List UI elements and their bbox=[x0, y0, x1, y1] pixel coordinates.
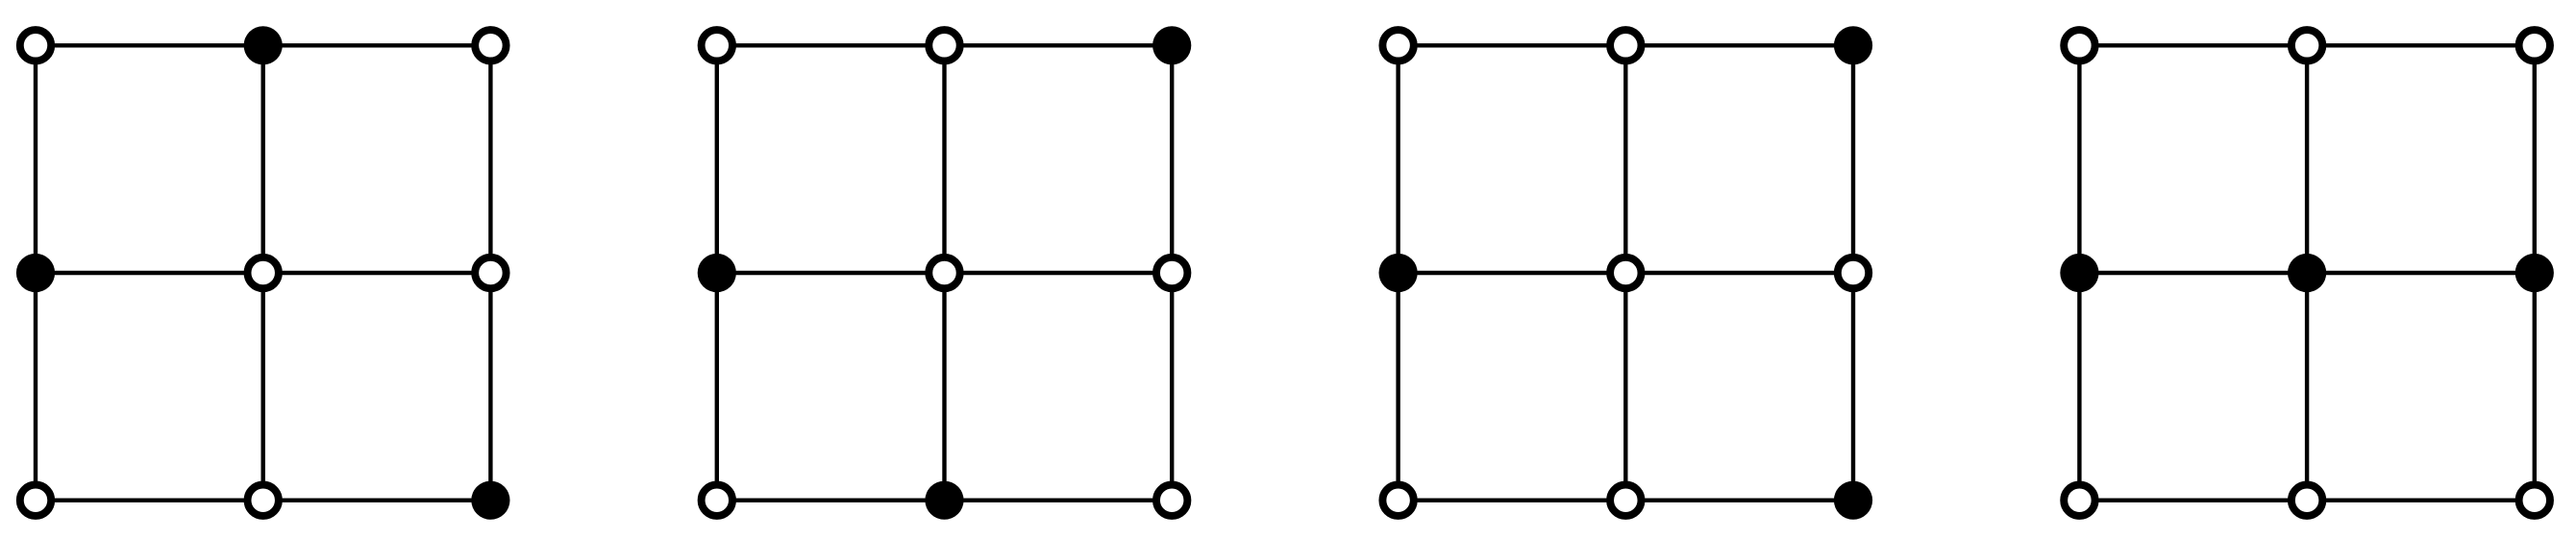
wire grid2 col2: node 12 to node 22 bbox=[942, 45, 946, 273]
node grid4-31 (open vertex) bbox=[2064, 485, 2094, 516]
wire grid2 col1: node 11 to node 21 bbox=[715, 45, 719, 273]
wire grid3 row1: node 12 to node 13 bbox=[1625, 43, 1853, 47]
wire grid4 row3: node 32 to node 33 bbox=[2307, 499, 2535, 502]
node grid2-11 (open vertex) bbox=[702, 30, 732, 61]
node grid3-13 (filled vertex) bbox=[1834, 26, 1872, 64]
wire grid3 row3: node 32 to node 33 bbox=[1625, 499, 1853, 502]
wire grid1 col1: node 21 to node 31 bbox=[34, 273, 37, 501]
wire grid3 col1: node 21 to node 31 bbox=[1396, 273, 1399, 501]
node grid2-21 (filled vertex) bbox=[698, 254, 736, 292]
wire grid4 col2: node 12 to node 22 bbox=[2305, 45, 2309, 273]
wire grid4 row2: node 21 to node 22 bbox=[2079, 271, 2307, 275]
node grid2-32 (filled vertex) bbox=[925, 481, 963, 520]
node grid4-33 (open vertex) bbox=[2519, 485, 2550, 516]
wire grid4 row3: node 31 to node 32 bbox=[2079, 499, 2307, 502]
wire grid2 row1: node 11 to node 12 bbox=[717, 43, 945, 47]
node grid1-23 (open vertex) bbox=[475, 257, 506, 288]
wire grid4 col1: node 21 to node 31 bbox=[2077, 273, 2081, 501]
wire grid1 col2: node 12 to node 22 bbox=[261, 45, 265, 273]
node grid4-12 (open vertex) bbox=[2291, 30, 2322, 61]
node grid3-11 (open vertex) bbox=[1382, 30, 1413, 61]
wire grid4 row2: node 22 to node 23 bbox=[2307, 271, 2535, 275]
wire grid4 row1: node 12 to node 13 bbox=[2307, 43, 2535, 47]
node grid4-22 (filled vertex) bbox=[2288, 254, 2326, 292]
wire grid2 row3: node 32 to node 33 bbox=[945, 499, 1173, 502]
node grid1-13 (open vertex) bbox=[475, 30, 506, 61]
node grid3-22 (open vertex) bbox=[1610, 257, 1641, 288]
wire grid3 col1: node 11 to node 21 bbox=[1396, 45, 1399, 273]
node grid2-22 (open vertex) bbox=[929, 257, 959, 288]
wire grid2 col3: node 13 to node 23 bbox=[1170, 45, 1174, 273]
node grid2-33 (open vertex) bbox=[1156, 485, 1187, 516]
node grid4-21 (filled vertex) bbox=[2060, 254, 2098, 292]
wire grid1 row3: node 32 to node 33 bbox=[263, 499, 491, 502]
node grid3-33 (filled vertex) bbox=[1834, 481, 1872, 520]
node grid4-23 (filled vertex) bbox=[2515, 254, 2554, 292]
wire grid2 col3: node 23 to node 33 bbox=[1170, 273, 1174, 501]
wire grid2 row1: node 12 to node 13 bbox=[945, 43, 1173, 47]
wire grid4 col2: node 22 to node 32 bbox=[2305, 273, 2309, 501]
node grid1-33 (filled vertex) bbox=[471, 481, 509, 520]
wire grid2 row3: node 31 to node 32 bbox=[717, 499, 945, 502]
node grid3-21 (filled vertex) bbox=[1379, 254, 1418, 292]
node grid1-32 (open vertex) bbox=[248, 485, 279, 516]
node grid1-12 (filled vertex) bbox=[244, 26, 283, 64]
wire grid4 col3: node 23 to node 33 bbox=[2533, 273, 2537, 501]
wire grid3 col2: node 22 to node 32 bbox=[1623, 273, 1627, 501]
node grid2-13 (filled vertex) bbox=[1152, 26, 1191, 64]
wire grid1 col3: node 13 to node 23 bbox=[488, 45, 492, 273]
wire grid3 row3: node 31 to node 32 bbox=[1399, 499, 1626, 502]
wire grid4 col3: node 13 to node 23 bbox=[2533, 45, 2537, 273]
wire grid1 col3: node 23 to node 33 bbox=[488, 273, 492, 501]
node grid1-11 (open vertex) bbox=[20, 30, 51, 61]
node grid1-22 (open vertex) bbox=[248, 257, 279, 288]
wire grid1 row2: node 22 to node 23 bbox=[263, 271, 491, 275]
wire grid2 col1: node 21 to node 31 bbox=[715, 273, 719, 501]
node grid1-31 (open vertex) bbox=[20, 485, 51, 516]
node grid2-12 (open vertex) bbox=[929, 30, 959, 61]
wire grid1 col1: node 11 to node 21 bbox=[34, 45, 37, 273]
wire grid4 col1: node 11 to node 21 bbox=[2077, 45, 2081, 273]
node grid3-32 (open vertex) bbox=[1610, 485, 1641, 516]
wire grid2 row2: node 21 to node 22 bbox=[717, 271, 945, 275]
wire grid2 col2: node 22 to node 32 bbox=[942, 273, 946, 501]
node grid3-23 (open vertex) bbox=[1838, 257, 1869, 288]
node grid2-31 (open vertex) bbox=[702, 485, 732, 516]
wire grid3 col3: node 23 to node 33 bbox=[1851, 273, 1855, 501]
node grid3-12 (open vertex) bbox=[1610, 30, 1641, 61]
wire grid1 row3: node 31 to node 32 bbox=[36, 499, 263, 502]
wire grid3 row2: node 22 to node 23 bbox=[1625, 271, 1853, 275]
node grid2-23 (open vertex) bbox=[1156, 257, 1187, 288]
node grid3-31 (open vertex) bbox=[1382, 485, 1413, 516]
node grid1-21 (filled vertex) bbox=[16, 254, 55, 292]
wire grid3 row1: node 11 to node 12 bbox=[1399, 43, 1626, 47]
wire grid1 row2: node 21 to node 22 bbox=[36, 271, 263, 275]
wire grid4 row1: node 11 to node 12 bbox=[2079, 43, 2307, 47]
wire grid1 row1: node 12 to node 13 bbox=[263, 43, 491, 47]
node grid4-11 (open vertex) bbox=[2064, 30, 2094, 61]
wire grid2 row2: node 22 to node 23 bbox=[945, 271, 1173, 275]
node grid4-13 (open vertex) bbox=[2519, 30, 2550, 61]
wire grid3 col3: node 13 to node 23 bbox=[1851, 45, 1855, 273]
wire grid1 col2: node 22 to node 32 bbox=[261, 273, 265, 501]
wire grid3 row2: node 21 to node 22 bbox=[1399, 271, 1626, 275]
node grid4-32 (open vertex) bbox=[2291, 485, 2322, 516]
wire grid1 row1: node 11 to node 12 bbox=[36, 43, 263, 47]
wire grid3 col2: node 12 to node 22 bbox=[1623, 45, 1627, 273]
